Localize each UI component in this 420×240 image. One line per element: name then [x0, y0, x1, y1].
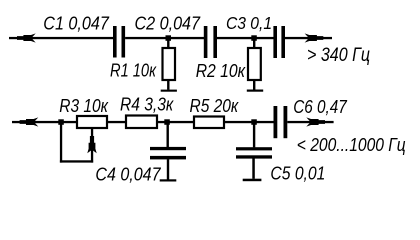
resistor R5 [194, 117, 224, 129]
wire C2 to C3 [217, 37, 274, 39]
resistor R1 [163, 48, 176, 80]
wire C1 to C2 [125, 37, 204, 39]
wire C5 stem bottom [252, 159, 255, 179]
wire R4 to R5 [157, 121, 194, 123]
svg-text:C3 0,1: C3 0,1 [226, 13, 272, 33]
wire wiper across [60, 160, 93, 162]
capacitor C5 [236, 147, 272, 158]
wire C4 stem bottom [167, 159, 169, 179]
svg-text:C4 0,047: C4 0,047 [95, 164, 161, 185]
node junction bot-B [164, 119, 170, 125]
capacitor C6 [274, 106, 288, 138]
resistor R4 [126, 116, 157, 129]
input arrow top-left [17, 33, 36, 42]
ground R2 [247, 90, 263, 92]
wire wiper down [60, 122, 62, 163]
wire R2 stem top [253, 40, 255, 49]
svg-text:R4 3,3к: R4 3,3к [120, 94, 174, 115]
wire C5 stem top [253, 124, 255, 147]
svg-text:C2 0,047: C2 0,047 [135, 13, 201, 34]
input arrow bottom-left [20, 117, 39, 126]
capacitor C1 [113, 26, 125, 58]
svg-text:R3 10к: R3 10к [59, 95, 109, 116]
svg-text:C5 0,01: C5 0,01 [270, 162, 325, 183]
wire top input [9, 37, 114, 39]
wire top output [285, 37, 332, 39]
node junction top-B [251, 35, 256, 41]
wire R2 stem bottom [253, 80, 255, 90]
capacitor C3 [273, 26, 285, 58]
svg-text:R5 20к: R5 20к [190, 95, 240, 116]
svg-text:R2 10к: R2 10к [196, 60, 246, 81]
resistor R3 [77, 116, 107, 128]
wire bottom output [287, 121, 333, 123]
wiper arrow R3 [87, 136, 96, 153]
wire R5 to C6 [224, 121, 274, 123]
node junction bot-C [251, 119, 256, 125]
wire R1 stem bottom [167, 80, 169, 90]
wire wiper up [91, 128, 93, 163]
wire C4 stem top [167, 124, 169, 147]
svg-text:> 340 Гц: > 340 Гц [307, 45, 370, 66]
node junction bot-A [58, 119, 64, 125]
capacitor C2 [204, 26, 217, 58]
output arrow top-right [305, 33, 324, 42]
wire bottom input [12, 121, 78, 123]
node junction top-A [166, 35, 172, 41]
svg-text:C6 0,47: C6 0,47 [293, 96, 347, 117]
ground C5 [243, 179, 262, 182]
wire R3 to R4 [107, 121, 126, 123]
svg-text:< 200...1000 Гц: < 200...1000 Гц [297, 134, 406, 155]
svg-text:C1 0,047: C1 0,047 [43, 12, 109, 33]
capacitor C4 [150, 147, 186, 160]
svg-text:R1 10к: R1 10к [110, 60, 157, 81]
ground C4 [160, 179, 177, 181]
wire R1 stem top [167, 40, 169, 49]
ground R1 [161, 90, 177, 92]
output arrow bottom-right [306, 117, 325, 126]
resistor R2 [248, 48, 261, 80]
